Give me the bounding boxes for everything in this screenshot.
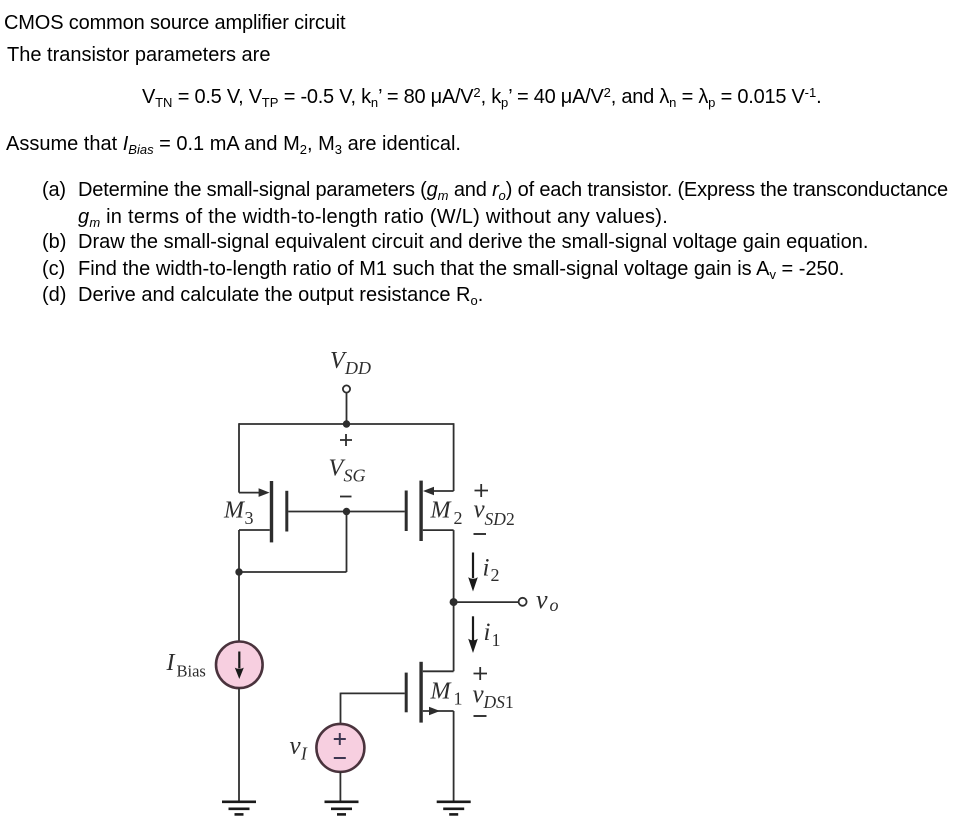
- wire left vertical lower: [238, 530, 240, 642]
- label vDS1 minus: [474, 715, 487, 717]
- wire top rail: [239, 423, 454, 425]
- label vDS1: [473, 681, 514, 712]
- transistor M3 source lead with arrow: [239, 488, 270, 497]
- transistor M2 drain lead: [423, 529, 454, 531]
- wire IBias to ground: [238, 688, 240, 802]
- wire gate line M3 to M2: [288, 511, 405, 513]
- svg-text:M: M: [430, 498, 453, 524]
- transistor M2 channel bar: [419, 481, 422, 541]
- label vSD2 plus: [475, 484, 489, 497]
- wire vI to ground: [339, 772, 341, 802]
- label vI: [290, 733, 309, 764]
- transistor M1 channel bar: [419, 662, 422, 723]
- svg-text:Bias: Bias: [177, 661, 206, 680]
- junction output node dot: [450, 598, 458, 606]
- wire left vertical upper: [238, 423, 240, 492]
- label i2: [483, 555, 500, 586]
- junction mirror link dot: [235, 568, 242, 575]
- label VSG plus: [340, 434, 352, 446]
- label M2: [430, 498, 463, 528]
- current source IBias: [216, 642, 263, 689]
- label VDD: [330, 348, 371, 378]
- ground middle: [325, 802, 359, 815]
- label M3: [223, 498, 254, 528]
- label vSD2 minus: [474, 533, 487, 535]
- label vSD2: [474, 496, 515, 529]
- transistor M1 gate bar: [405, 673, 408, 713]
- svg-text:2: 2: [506, 509, 515, 529]
- wire output: [454, 601, 519, 603]
- voltage source vI: [316, 724, 364, 772]
- node vo terminal: [519, 598, 527, 606]
- svg-text:I: I: [166, 650, 176, 676]
- svg-text:DS: DS: [483, 692, 506, 712]
- current arrow i2: [468, 553, 478, 592]
- transistor M1 drain lead: [423, 670, 454, 672]
- junction top rail dot: [343, 420, 350, 427]
- label VSG: [329, 456, 366, 486]
- wire mirror link horizontal: [239, 571, 347, 573]
- wire gate node drop: [346, 512, 348, 573]
- wire vI stub: [340, 693, 342, 724]
- svg-text:v: v: [536, 585, 548, 614]
- svg-text:1: 1: [454, 689, 463, 709]
- transistor M3 drain lead: [239, 529, 270, 531]
- svg-text:i: i: [484, 619, 491, 646]
- svg-text:1: 1: [505, 692, 514, 712]
- svg-text:i: i: [483, 555, 490, 582]
- transistor M3 channel bar: [270, 481, 273, 542]
- ground left: [222, 802, 256, 815]
- transistor M2 source lead with arrow: [423, 487, 454, 496]
- svg-text:M: M: [430, 679, 453, 705]
- node VDD terminal: [343, 385, 350, 392]
- svg-text:DD: DD: [344, 358, 371, 378]
- svg-text:SD: SD: [485, 509, 507, 529]
- label VSG minus: [340, 496, 352, 498]
- svg-text:I: I: [300, 744, 308, 764]
- wire M1 gate lead: [341, 692, 405, 694]
- label i1: [484, 619, 501, 650]
- wire right vertical lower: [453, 711, 455, 802]
- transistor M3 gate bar: [285, 491, 288, 532]
- svg-text:SG: SG: [344, 466, 366, 486]
- svg-text:o: o: [550, 595, 559, 615]
- label IBias: [166, 650, 206, 680]
- transistor M1 source lead with arrow: [423, 707, 454, 716]
- wire VDD stub: [346, 393, 348, 424]
- wire right vertical middle: [453, 530, 455, 671]
- svg-text:2: 2: [491, 565, 500, 585]
- svg-text:v: v: [290, 733, 302, 760]
- svg-text:3: 3: [245, 508, 254, 528]
- junction gate node dot: [343, 508, 350, 515]
- ground right: [437, 802, 471, 815]
- wire right vertical upper: [453, 423, 455, 491]
- svg-text:2: 2: [454, 508, 463, 528]
- svg-text:1: 1: [492, 630, 501, 650]
- current arrow i1: [468, 616, 478, 653]
- label vo: [536, 585, 559, 615]
- svg-text:M: M: [223, 498, 246, 524]
- label vDS1 plus: [474, 667, 488, 680]
- label M1: [430, 679, 463, 709]
- transistor M2 gate bar: [405, 491, 408, 532]
